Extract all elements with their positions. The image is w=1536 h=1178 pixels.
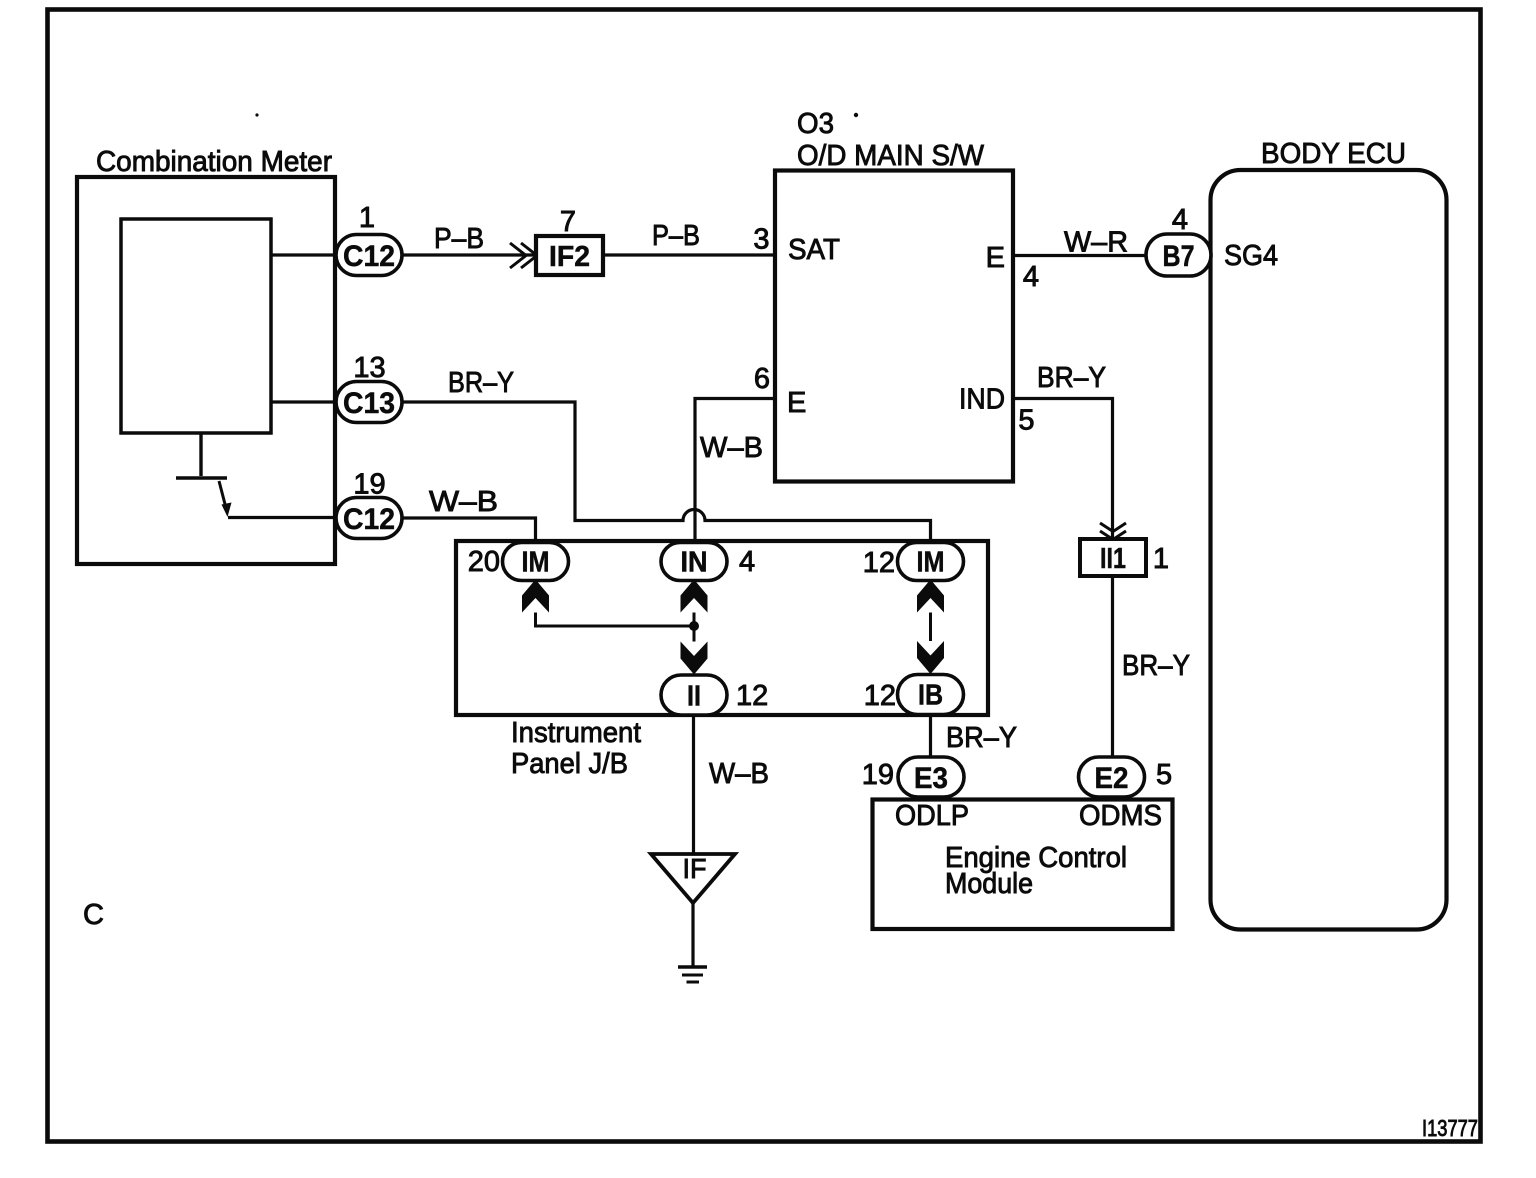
- svg-text:C13: C13: [343, 387, 395, 420]
- svg-text:IF: IF: [683, 853, 707, 884]
- junction connector IF2 pin 7: [510, 236, 603, 275]
- svg-text:W–R: W–R: [1064, 227, 1128, 259]
- wire BR-Y (IB to E3): [929, 715, 932, 757]
- svg-text:B7: B7: [1163, 240, 1195, 273]
- wire BR-Y (C13 to J/B IM 12): [402, 402, 931, 542]
- svg-text:E2: E2: [1095, 762, 1129, 795]
- svg-text:E: E: [986, 242, 1005, 274]
- node (J/B junction): [689, 621, 699, 631]
- wire (J/B internal IM 20 to junction): [536, 613, 695, 627]
- svg-text:Instrument: Instrument: [511, 717, 641, 749]
- svg-text:7: 7: [560, 206, 576, 238]
- svg-text:13: 13: [353, 352, 385, 384]
- svg-text:ODLP: ODLP: [895, 800, 969, 832]
- wire BR-Y (O3 IND to II1): [1013, 399, 1113, 540]
- svg-text:BR–Y: BR–Y: [1122, 650, 1190, 682]
- block Engine Control Module: [873, 800, 1173, 930]
- svg-text:W–B: W–B: [429, 486, 498, 518]
- bus arrow (below IM 20): [522, 580, 549, 613]
- wire W-B (C12 19 to J/B IM 20): [402, 518, 536, 542]
- svg-text:Panel J/B: Panel J/B: [511, 748, 628, 780]
- svg-text:Combination Meter: Combination Meter: [96, 146, 332, 178]
- svg-text:5: 5: [1156, 759, 1172, 791]
- svg-text:4: 4: [1023, 261, 1039, 293]
- svg-text:IB: IB: [918, 680, 943, 712]
- connector IN pin 4: [661, 543, 727, 581]
- svg-text:4: 4: [739, 546, 755, 578]
- wire (IF to ground): [691, 903, 694, 966]
- svg-text:1: 1: [359, 202, 375, 234]
- connector E3 pin 19: [898, 757, 964, 797]
- svg-text:P–B: P–B: [434, 223, 484, 255]
- connector C13 pin 13: [336, 382, 402, 423]
- bus arrow (above IB): [917, 641, 944, 674]
- svg-text:3: 3: [753, 224, 769, 256]
- bus arrow (below IN): [681, 580, 708, 613]
- block Combination Meter: [77, 146, 335, 564]
- block Instrument Panel J/B: [456, 541, 988, 780]
- svg-text:I13777: I13777: [1422, 1115, 1478, 1141]
- svg-text:Module: Module: [945, 868, 1033, 900]
- svg-text:IF2: IF2: [549, 241, 590, 273]
- switch O3 O/D MAIN S/W: [775, 108, 1013, 482]
- switch (meter ground contact): [176, 433, 232, 517]
- svg-text:20: 20: [468, 546, 500, 578]
- svg-text:1: 1: [1153, 543, 1169, 575]
- wire W-B (II to ground IF): [692, 715, 695, 854]
- svg-text:IN: IN: [681, 547, 708, 579]
- ground: [678, 967, 707, 982]
- svg-text:19: 19: [862, 759, 894, 791]
- wire P-B (C12 to IF2): [402, 253, 536, 256]
- wire BR-Y (II1 to E2): [1111, 576, 1114, 757]
- svg-text:SAT: SAT: [788, 234, 840, 266]
- svg-text:5: 5: [1018, 405, 1034, 437]
- connector E2 pin 5: [1079, 757, 1145, 797]
- svg-text:O/D MAIN S/W: O/D MAIN S/W: [797, 140, 985, 172]
- connector IB pin 12: [898, 675, 964, 715]
- scan speck: [854, 113, 858, 117]
- svg-text:P–B: P–B: [652, 220, 700, 252]
- wire (meter to C13 pin 13): [271, 400, 336, 403]
- wire (meter to C12 pin 1): [271, 253, 336, 256]
- connector C12 pin 1: [336, 235, 402, 276]
- wire (J/B internal IM 12 to IB): [929, 613, 932, 642]
- svg-text:W–B: W–B: [700, 432, 763, 464]
- svg-text:E3: E3: [914, 762, 948, 795]
- block BODY ECU: [1211, 138, 1447, 930]
- wire (J/B internal IN to II): [693, 613, 696, 642]
- junction connector II1 pin 1: [1080, 523, 1146, 576]
- svg-text:SG4: SG4: [1224, 240, 1278, 272]
- svg-text:12: 12: [736, 680, 768, 712]
- svg-text:BR–Y: BR–Y: [1037, 362, 1106, 394]
- svg-text:BODY ECU: BODY ECU: [1261, 138, 1406, 170]
- svg-text:6: 6: [754, 363, 770, 395]
- svg-text:BR–Y: BR–Y: [448, 367, 514, 399]
- svg-text:E: E: [787, 387, 806, 419]
- svg-text:BR–Y: BR–Y: [946, 722, 1017, 754]
- connector C12 pin 19: [336, 498, 402, 539]
- svg-text:C: C: [83, 899, 104, 931]
- wire P-B (IF2 to O3 SAT): [603, 253, 775, 256]
- connector II pin 12: [661, 675, 727, 715]
- svg-text:IM: IM: [917, 547, 945, 579]
- bus arrow (below IM 12): [917, 580, 944, 613]
- svg-text:O3: O3: [797, 108, 834, 140]
- svg-text:IND: IND: [959, 384, 1005, 416]
- svg-text:IM: IM: [522, 547, 550, 579]
- fusible link IF: [651, 853, 735, 903]
- bus arrow (above II): [681, 642, 708, 675]
- svg-text:II1: II1: [1100, 543, 1126, 575]
- svg-text:W–B: W–B: [709, 758, 769, 790]
- wire W-B (switch to C12 pin 19): [228, 516, 336, 519]
- meter unit (inner rectangle): [121, 219, 271, 433]
- connector IM pin 20: [503, 543, 569, 581]
- svg-text:C12: C12: [343, 240, 395, 273]
- svg-text:12: 12: [863, 547, 895, 579]
- wire W-R (O3 E to B7): [1013, 254, 1146, 257]
- svg-text:ODMS: ODMS: [1079, 800, 1162, 832]
- svg-text:12: 12: [864, 680, 896, 712]
- connector B7 pin 4: [1146, 234, 1211, 276]
- wire W-B (O3 E 6 to J/B IN): [695, 399, 775, 542]
- connector IM pin 12: [898, 543, 964, 581]
- svg-text:4: 4: [1172, 204, 1188, 236]
- svg-text:C12: C12: [343, 503, 395, 536]
- svg-text:II: II: [687, 681, 701, 713]
